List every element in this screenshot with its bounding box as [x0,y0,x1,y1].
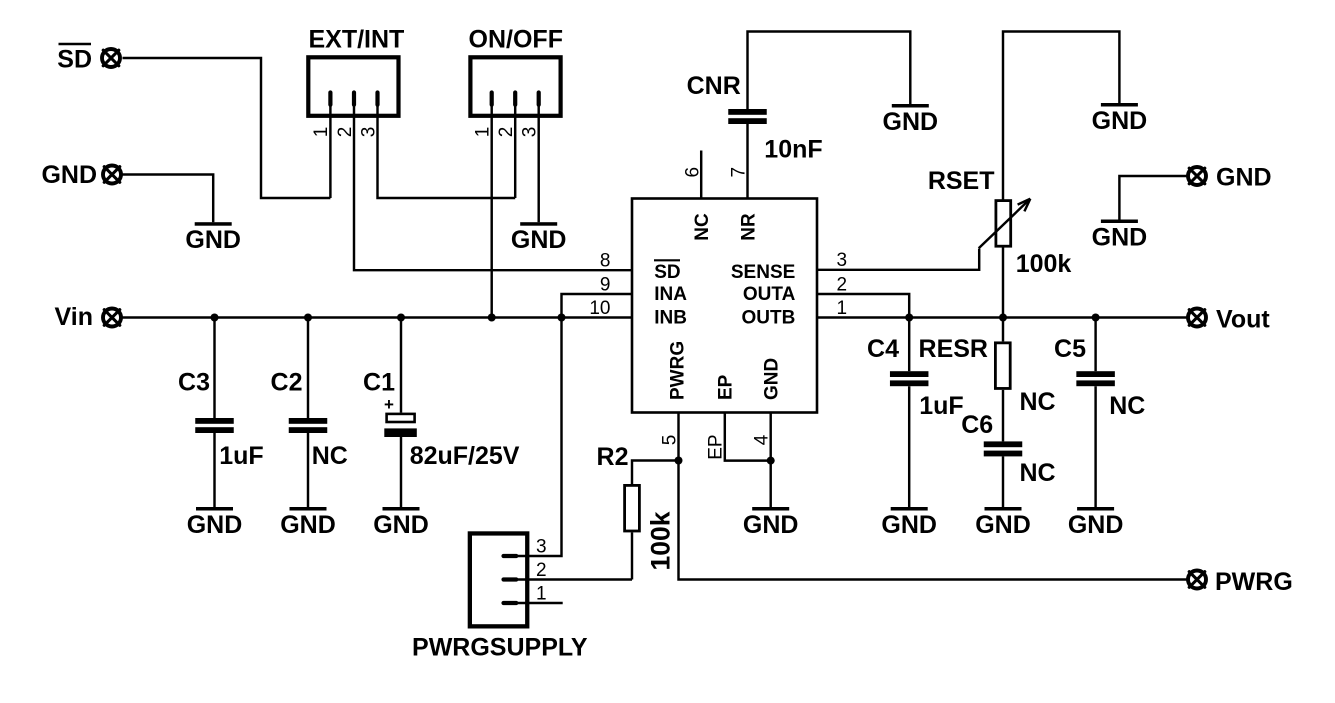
svg-text:3: 3 [358,127,379,138]
svg-text:4: 4 [752,434,773,445]
ground (RSET top) [1092,103,1148,135]
ground (C2) [280,507,336,539]
potentiometer RSET [996,201,1011,247]
svg-text:PWRG: PWRG [668,341,689,400]
connector ON/OFF pin 2 stub [513,93,517,105]
wire IC GND pin 4 to ground symbol [769,413,771,508]
svg-text:1: 1 [536,584,547,605]
svg-text:GND: GND [883,108,939,136]
svg-text:8: 8 [600,250,611,271]
svg-text:NC: NC [1020,459,1056,487]
svg-text:C5: C5 [1054,335,1086,363]
svg-text:3: 3 [837,250,848,271]
junction R2/PWRG [675,457,683,465]
connector ON/OFF box [470,57,560,116]
svg-text:1: 1 [311,127,332,138]
svg-text:PWRGSUPPLY: PWRGSUPPLY [412,634,588,662]
svg-text:EP: EP [716,374,737,400]
svg-text:GND: GND [280,511,336,539]
svg-text:C4: C4 [867,335,899,363]
pad Vin [103,309,121,327]
svg-text:INA: INA [654,284,687,305]
wire ON/OFF pin 2 [514,106,516,198]
svg-text:OUTA: OUTA [743,284,796,305]
wire C4 bottom lead [908,386,910,507]
wire EXT/INT pin 1 [329,106,331,198]
pad SD [102,49,120,67]
svg-text:NC: NC [1020,388,1056,416]
capacitor CNR [728,109,767,124]
wire C3 top lead [213,318,215,419]
svg-text:5: 5 [659,435,680,446]
wire RSET bottom to Vout rail [1002,247,1004,317]
wire ON/OFF pin 1 to Vin rail [490,106,492,318]
wire R2 bottom lead [631,532,633,579]
potentiometer RSET wiper arrow [979,199,1031,249]
svg-text:RESR: RESR [919,335,988,363]
connector ON/OFF pin 1 stub [490,93,494,105]
svg-text:SD: SD [654,262,680,283]
connector PWRGSUPPLY pin 3 stub [504,554,517,558]
svg-text:C1: C1 [363,369,395,397]
pad PWRG [1188,571,1206,589]
connector EXT/INT pin 2 stub [352,93,356,105]
wire IC EP pin to GND net [725,413,771,461]
wire CNR to ground [748,32,911,110]
ground (CNR) [883,104,939,136]
junction Vin/C2 [304,314,312,322]
svg-text:ON/OFF: ON/OFF [469,26,563,54]
svg-text:GND: GND [373,511,429,539]
wire IC pin 7 NR to CNR [746,124,748,199]
svg-text:INB: INB [654,307,687,328]
svg-text:CNR: CNR [687,72,741,100]
svg-text:C6: C6 [961,411,993,439]
svg-text:6: 6 [682,167,703,178]
wire C6 bottom lead [1002,456,1004,507]
connector EXT/INT box [308,57,398,116]
ground (IC pin 4) [743,507,799,539]
svg-text:1: 1 [473,127,494,138]
svg-text:2: 2 [496,127,517,138]
connector PWRGSUPPLY box [470,533,527,626]
op-amp/regulator IC box [632,199,817,413]
junction Vout/C5 [1092,314,1100,322]
svg-text:10nF: 10nF [764,136,822,164]
wire C4 top lead [908,318,910,372]
wire GND pad left to ground symbol [123,175,214,223]
wire IC pin 9 INA to Vin rail and PWRGSUPPLY pin 3 [518,294,632,556]
wire C1 top lead [400,318,402,413]
wire RESR to C6 [1002,390,1004,442]
wire IC pin 3 SENSE to RSET wiper [817,249,979,270]
wire C1 bottom lead [400,437,402,507]
ground (left GND pad) [185,222,241,254]
svg-text:GND: GND [1092,223,1148,251]
capacitor C3 [195,418,234,433]
junction Vout/RSET/RESR [999,314,1007,322]
capacitor C2 [289,418,328,433]
ground (ON/OFF pin 3) [511,222,567,254]
svg-text:EXT/INT: EXT/INT [308,26,404,54]
ground (C4) [881,507,937,539]
svg-text:SD: SD [57,46,92,74]
ground (C3) [187,507,243,539]
svg-text:NC: NC [1109,392,1145,420]
overline for IC pin name SD [654,259,680,261]
svg-text:EP: EP [706,434,727,459]
svg-text:GND: GND [185,226,241,254]
wire RESR top lead [1002,318,1004,342]
svg-text:R2: R2 [597,443,629,471]
svg-text:1uF: 1uF [219,442,263,470]
junction Vin/C3 [211,314,219,322]
connector ON/OFF pin 3 stub [537,93,541,105]
junction Vin/INA/PWRGSUPPLY pin3 [558,314,566,322]
svg-text:1: 1 [837,298,848,319]
wire GND pad right to ground symbol [1119,176,1186,220]
resistor RESR [995,343,1010,389]
svg-text:OUTB: OUTB [741,307,795,328]
capacitor C5 [1076,371,1115,386]
wire PWRGSUPPLY pin 1 stub [518,602,563,604]
ground (C1) [373,507,429,539]
overline for SD pad label [59,43,92,46]
svg-text:GND: GND [975,511,1031,539]
ground (right GND pad) [1092,220,1148,252]
wire C5 bottom lead [1094,386,1096,507]
connector EXT/INT pin 1 stub [328,93,332,105]
wire IC PWRG pin to PWRG pad [679,413,1187,580]
svg-text:100k: 100k [646,511,676,570]
svg-text:GND: GND [743,511,799,539]
svg-text:100k: 100k [1016,250,1072,278]
svg-text:Vout: Vout [1216,306,1270,334]
svg-text:NC: NC [692,213,713,241]
wire IC pin 2 OUTA to Vout rail [817,294,909,318]
svg-text:1uF: 1uF [919,392,963,420]
svg-text:GND: GND [187,511,243,539]
connector PWRGSUPPLY pin 1 stub [504,601,517,605]
connector EXT/INT pin 3 stub [375,93,379,105]
svg-text:SENSE: SENSE [731,262,795,283]
wire PWRGSUPPLY pin 2 to R2 [518,578,632,580]
svg-text:2: 2 [837,274,848,295]
svg-text:9: 9 [600,274,611,295]
wire IC pin 6 NC stub [700,151,702,199]
wire SD pad to EXT/INT pin 1 [123,58,331,198]
svg-text:3: 3 [536,537,547,558]
wire Vin rail [123,316,633,318]
svg-text:10: 10 [589,298,610,319]
wire EXT/INT pin 2 to IC pin 8 (SD) [354,106,632,270]
svg-text:3: 3 [520,127,541,138]
wire C2 bottom lead [307,433,309,507]
svg-text:C2: C2 [271,369,303,397]
pad GND right [1188,167,1206,185]
ground (C5) [1068,507,1124,539]
capacitor C6 [984,441,1023,456]
svg-text:7: 7 [729,167,750,178]
svg-text:NR: NR [738,213,759,241]
wire EXT/INT pin 3 jumper [378,106,516,198]
svg-text:C3: C3 [178,369,210,397]
svg-text:RSET: RSET [928,167,995,195]
ground (C6) [975,507,1031,539]
svg-text:Vin: Vin [55,303,93,331]
svg-text:2: 2 [335,127,356,138]
capacitor C1 (polarized) top plate [387,414,415,422]
junction Vout/C4/OUTA [905,314,913,322]
wire C2 top lead [307,318,309,419]
svg-text:82uF/25V: 82uF/25V [410,442,520,470]
connector PWRGSUPPLY pin 2 stub [504,577,517,581]
capacitor C1 (polarized) bottom plate [384,428,417,437]
wire Vout rail (OUTB pin 1) [817,316,1187,318]
junction EP/GND pin [767,457,775,465]
svg-text:GND: GND [1216,164,1272,192]
wire ON/OFF pin 3 to ground [537,106,539,222]
wire C5 top lead [1094,318,1096,372]
resistor R2 [625,485,640,531]
junction Vin/C1 [397,314,405,322]
pad Vout [1188,309,1206,327]
svg-text:2: 2 [536,560,547,581]
svg-text:GND: GND [511,226,567,254]
svg-text:GND: GND [881,511,937,539]
wire C3 bottom lead [213,433,215,507]
svg-text:GND: GND [761,358,782,400]
svg-text:PWRG: PWRG [1215,568,1293,596]
svg-text:GND: GND [1092,107,1148,135]
svg-text:GND: GND [1068,511,1124,539]
wire RSET top to ground [1003,32,1119,200]
svg-text:+: + [384,395,394,414]
wire R2 top lead to PWRG node [632,461,679,485]
capacitor C4 [890,371,929,386]
svg-text:GND: GND [41,161,97,189]
pad GND left [103,166,121,184]
junction Vin/ON-OFF pin1 [488,314,496,322]
svg-text:NC: NC [312,442,348,470]
